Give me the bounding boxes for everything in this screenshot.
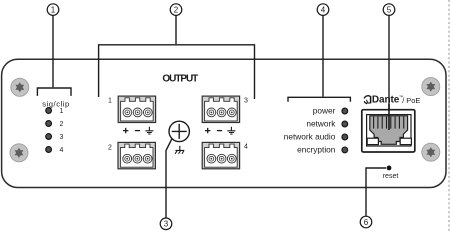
- svg-text:power: power: [313, 106, 336, 116]
- svg-text:network: network: [306, 119, 336, 129]
- svg-text:Dante: Dante: [372, 95, 400, 106]
- svg-text:3: 3: [164, 220, 169, 229]
- svg-text:6: 6: [364, 218, 369, 227]
- svg-text:1: 1: [51, 5, 56, 14]
- svg-text:5: 5: [387, 5, 392, 14]
- svg-text:1: 1: [60, 108, 64, 115]
- svg-text:4: 4: [60, 147, 64, 154]
- svg-text:2: 2: [108, 145, 112, 152]
- svg-text:4: 4: [321, 5, 326, 14]
- svg-text:sig/clip: sig/clip: [42, 99, 70, 108]
- svg-text:encryption: encryption: [297, 144, 336, 154]
- svg-text:OUTPUT: OUTPUT: [162, 73, 198, 84]
- svg-text:1: 1: [108, 98, 112, 105]
- svg-text:/ PoE: / PoE: [402, 96, 420, 105]
- svg-text:3: 3: [244, 98, 248, 105]
- svg-text:3: 3: [60, 134, 64, 141]
- svg-text:reset: reset: [383, 173, 399, 180]
- svg-text:4: 4: [244, 144, 248, 151]
- svg-text:network audio: network audio: [284, 132, 336, 142]
- svg-text:2: 2: [60, 121, 64, 128]
- svg-text:2: 2: [174, 5, 179, 14]
